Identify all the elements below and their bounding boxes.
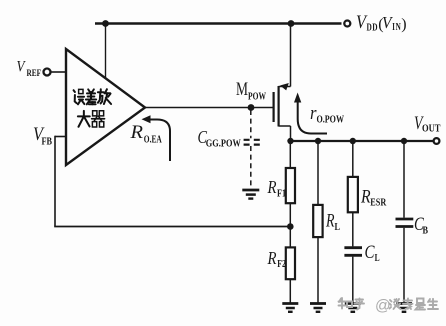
svg-text:GG.POW: GG.POW xyxy=(206,138,241,150)
svg-text:L: L xyxy=(335,221,341,233)
svg-text:R: R xyxy=(325,211,334,231)
svg-text:D: D xyxy=(367,22,372,34)
svg-text:L: L xyxy=(375,253,380,264)
svg-text:F1: F1 xyxy=(277,189,286,200)
svg-text:D: D xyxy=(372,22,377,34)
svg-text:R: R xyxy=(360,187,371,208)
svg-text:POW: POW xyxy=(248,91,266,103)
svg-text:R: R xyxy=(129,123,143,143)
svg-text:): ) xyxy=(401,16,406,33)
svg-text:O.EA: O.EA xyxy=(144,134,162,146)
svg-text:V: V xyxy=(17,59,26,76)
svg-text:I: I xyxy=(392,22,395,33)
svg-text:F2: F2 xyxy=(277,259,286,270)
svg-text:ESR: ESR xyxy=(370,197,387,209)
svg-text:REF: REF xyxy=(27,69,42,79)
svg-text:M: M xyxy=(236,80,248,100)
svg-text:C: C xyxy=(365,242,375,263)
svg-text:R: R xyxy=(267,248,277,268)
svg-text:@: @ xyxy=(375,298,391,315)
svg-text:FB: FB xyxy=(42,136,53,148)
svg-text:N: N xyxy=(396,22,401,33)
svg-text:B: B xyxy=(423,226,429,237)
svg-text:R: R xyxy=(267,177,277,197)
svg-text:OUT: OUT xyxy=(422,123,441,135)
svg-text:O.POW: O.POW xyxy=(317,114,345,126)
